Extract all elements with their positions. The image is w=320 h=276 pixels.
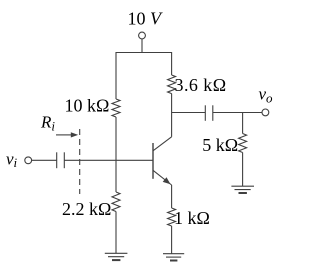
svg-text:2.2 kΩ: 2.2 kΩ	[62, 199, 111, 219]
terminal vi	[25, 157, 32, 164]
svg-text:10 kΩ: 10 kΩ	[65, 95, 110, 115]
wire: capacitor to divider node	[64, 159, 116, 161]
wire: base wire from divider node to base	[116, 159, 153, 161]
wire: 5k branch from output node down	[242, 113, 244, 134]
wire: left branch middle vertical (to base node and on to R2)	[115, 117, 117, 192]
svg-text:Ri: Ri	[40, 113, 55, 134]
wire: input terminal to capacitor	[32, 159, 57, 161]
svg-text:vi: vi	[6, 149, 18, 170]
resistor RC 3.6 kΩ	[168, 75, 176, 94]
terminal vo	[262, 109, 269, 116]
capacitor C1 (input coupling)	[57, 152, 65, 168]
wire: RL bottom to ground	[242, 153, 244, 187]
wire: supply stub	[141, 39, 143, 53]
wire: RE bottom to ground	[171, 226, 173, 254]
transistor Q1 (NPN)	[153, 137, 172, 185]
resistor R1 10 kΩ	[112, 99, 120, 117]
ground (left, below R2)	[105, 253, 128, 260]
svg-text:5 kΩ: 5 kΩ	[202, 135, 238, 155]
svg-text:vo: vo	[259, 85, 274, 106]
ground (right, below RL)	[231, 186, 254, 193]
wire: emitter vertical to R4	[171, 185, 173, 208]
wire: left branch upper vertical	[115, 52, 117, 99]
dashed boundary line at Ri	[79, 129, 81, 194]
wire: collector node to output capacitor	[172, 112, 206, 114]
wire: right branch vertical from RC to collector node	[171, 94, 173, 113]
wire: top rail horizontal	[116, 52, 172, 54]
wire: left branch lower vertical to ground	[115, 212, 117, 254]
resistor RE 1 kΩ	[168, 208, 176, 226]
svg-text:3.6 kΩ: 3.6 kΩ	[175, 75, 227, 95]
wire: collector vertical down to transistor	[171, 113, 173, 137]
svg-text:1 kΩ: 1 kΩ	[174, 208, 210, 228]
wire: right branch upper vertical	[171, 52, 173, 75]
resistor R2 2.2 kΩ	[112, 192, 120, 211]
resistor RL 5 kΩ	[239, 134, 247, 153]
ground (below RE)	[163, 254, 184, 261]
svg-text:10 V: 10 V	[128, 9, 164, 29]
wire: capacitor to output terminal (through 5k node)	[213, 112, 262, 114]
capacitor C2 (output coupling)	[205, 105, 213, 121]
arrow marker for Ri	[56, 132, 78, 137]
supply terminal (10 V)	[139, 32, 146, 39]
